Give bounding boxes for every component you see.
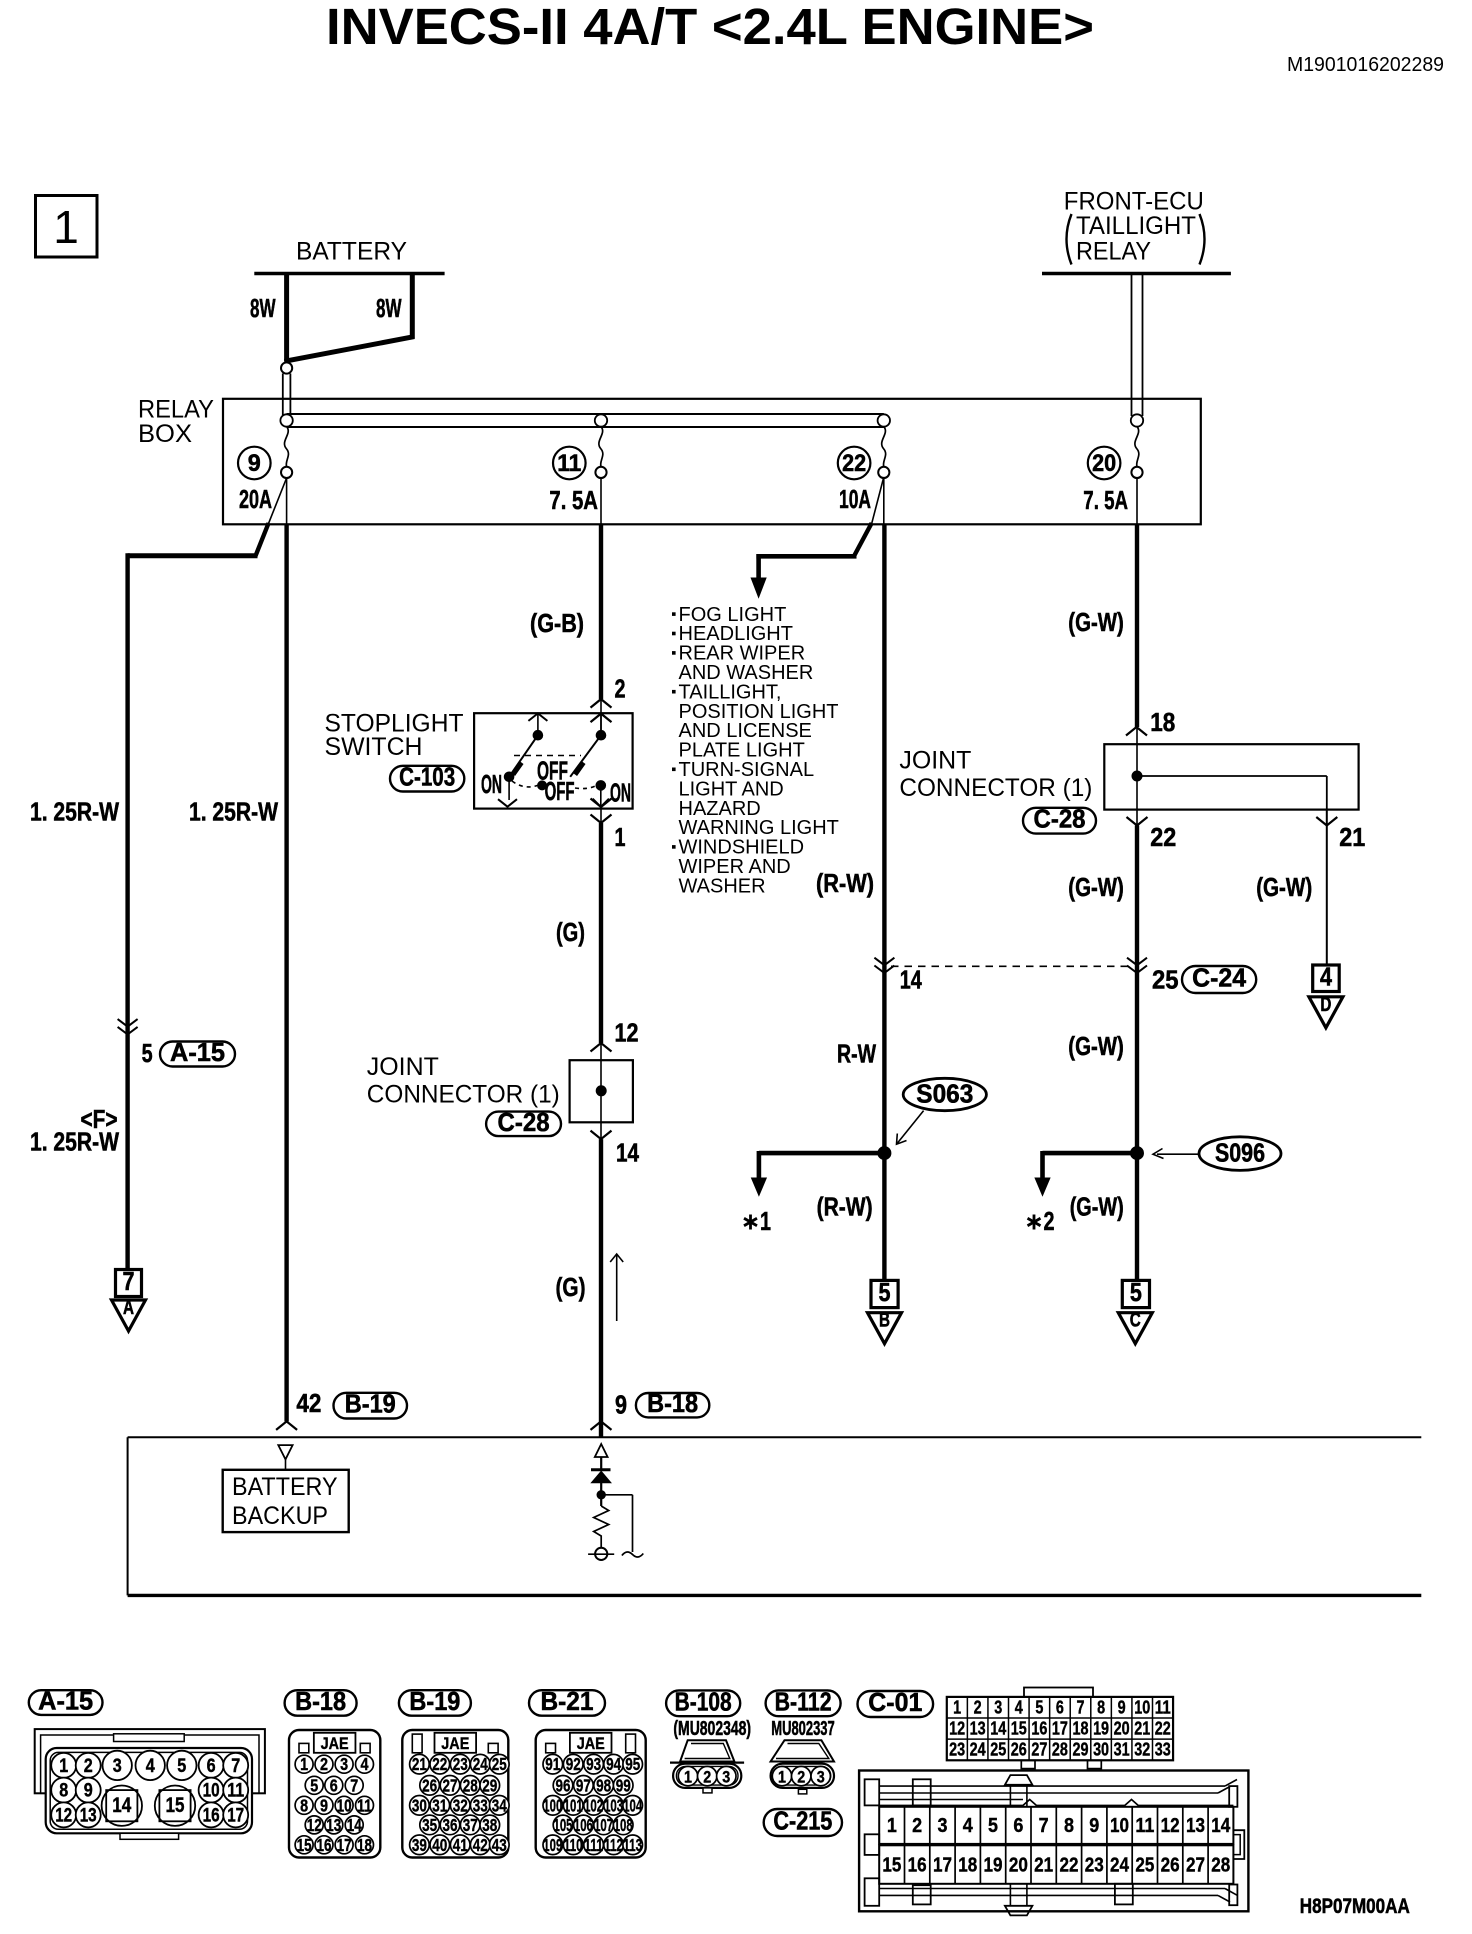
svg-text:(G): (G) [556,1272,586,1302]
svg-text:23: 23 [949,1740,965,1760]
svg-text:42: 42 [296,1388,321,1418]
svg-text:100: 100 [543,1795,562,1815]
svg-text:11: 11 [557,450,581,477]
svg-text:12: 12 [1161,1815,1180,1837]
svg-text:7. 5A: 7. 5A [1083,485,1128,515]
svg-text:95: 95 [625,1754,640,1774]
svg-text:7: 7 [1039,1815,1049,1837]
svg-text:4: 4 [1320,961,1332,991]
svg-text:23: 23 [453,1754,468,1774]
svg-text:R-W: R-W [837,1039,876,1069]
svg-text:5: 5 [1035,1697,1043,1717]
svg-text:10: 10 [203,1781,220,1802]
svg-text:20: 20 [1092,450,1116,477]
svg-text:20: 20 [1009,1855,1028,1877]
svg-text:4: 4 [146,1756,155,1777]
svg-text:11: 11 [357,1795,372,1815]
svg-text:21: 21 [1339,822,1365,852]
svg-text:4: 4 [1015,1697,1023,1717]
svg-text:M1901016202289: M1901016202289 [1287,54,1444,76]
svg-text:112: 112 [604,1835,623,1855]
svg-text:9: 9 [615,1390,627,1420]
svg-text:23: 23 [1085,1855,1104,1877]
svg-text:109: 109 [543,1835,562,1855]
svg-text:33: 33 [473,1795,488,1815]
svg-text:5: 5 [1130,1277,1142,1307]
svg-text:1: 1 [953,1697,961,1717]
svg-text:13: 13 [80,1805,97,1826]
svg-text:ON: ON [610,778,631,808]
svg-text:(G-B): (G-B) [530,608,584,638]
svg-text:92: 92 [566,1754,581,1774]
svg-text:96: 96 [556,1775,571,1795]
svg-text:17: 17 [1052,1719,1068,1739]
svg-text:16: 16 [908,1855,927,1877]
svg-text:RELAY: RELAY [1076,238,1151,266]
svg-text:9: 9 [248,450,261,477]
svg-text:14: 14 [900,965,922,995]
svg-text:43: 43 [492,1835,507,1855]
svg-text:H8P07M00AA: H8P07M00AA [1300,1895,1410,1918]
svg-text:25: 25 [1152,965,1179,995]
svg-text:12: 12 [307,1815,322,1835]
svg-text:1: 1 [760,1206,771,1236]
svg-text:91: 91 [545,1754,560,1774]
svg-text:5: 5 [142,1038,153,1068]
svg-text:B-19: B-19 [409,1686,460,1716]
svg-text:14: 14 [112,1794,131,1817]
svg-text:BATTERY: BATTERY [296,238,407,266]
svg-text:14: 14 [347,1815,362,1835]
svg-text:3: 3 [817,1767,825,1786]
svg-text:JAE: JAE [321,1734,349,1753]
svg-text:15: 15 [166,1794,185,1817]
svg-text:18: 18 [1150,707,1175,737]
svg-text:35: 35 [422,1815,437,1835]
svg-text:17: 17 [337,1835,352,1855]
svg-text:38: 38 [482,1815,497,1835]
svg-text:B-18: B-18 [647,1388,698,1418]
svg-text:105: 105 [554,1815,573,1835]
svg-text:107: 107 [594,1815,613,1835]
svg-text:2: 2 [703,1767,711,1786]
svg-text:2: 2 [797,1767,805,1786]
svg-text:97: 97 [576,1775,591,1795]
svg-text:20: 20 [1114,1719,1130,1739]
svg-text:8: 8 [1064,1815,1074,1837]
svg-text:25: 25 [990,1740,1006,1760]
svg-text:1: 1 [778,1767,786,1786]
svg-text:INVECS-II 4A/T <2.4L ENGINE>: INVECS-II 4A/T <2.4L ENGINE> [326,0,1094,55]
svg-text:9: 9 [1089,1815,1099,1837]
svg-text:24: 24 [473,1754,488,1774]
svg-text:27: 27 [1031,1740,1047,1760]
svg-text:22: 22 [1150,822,1176,852]
svg-text:JAE: JAE [577,1734,605,1753]
svg-text:34: 34 [492,1795,507,1815]
svg-text:5: 5 [988,1815,998,1837]
svg-text:WASHER: WASHER [679,875,766,897]
svg-text:110: 110 [564,1835,583,1855]
svg-text:B-18: B-18 [295,1686,346,1716]
svg-text:26: 26 [422,1775,437,1795]
svg-text:5: 5 [879,1277,891,1307]
svg-text:C-28: C-28 [1034,804,1086,834]
svg-text:7: 7 [1077,1697,1085,1717]
svg-text:15: 15 [882,1855,901,1877]
svg-text:7: 7 [350,1775,358,1795]
svg-text:14: 14 [1211,1815,1231,1837]
svg-text:102: 102 [584,1795,603,1815]
svg-text:1: 1 [53,201,79,253]
svg-text:19: 19 [1093,1719,1109,1739]
svg-text:19: 19 [984,1855,1003,1877]
svg-text:MU802337: MU802337 [771,1718,834,1740]
svg-text:1: 1 [300,1754,308,1774]
svg-text:22: 22 [432,1754,447,1774]
svg-text:(R-W): (R-W) [817,1192,873,1222]
svg-text:42: 42 [473,1835,488,1855]
svg-text:2: 2 [1044,1206,1055,1236]
svg-text:3: 3 [994,1697,1002,1717]
svg-text:B-21: B-21 [541,1686,594,1716]
svg-text:7. 5A: 7. 5A [549,485,598,515]
svg-text:(G-W): (G-W) [1256,872,1312,902]
svg-text:(G-W): (G-W) [1070,1192,1124,1222]
svg-text:B-19: B-19 [345,1389,396,1419]
svg-text:31: 31 [432,1795,447,1815]
svg-text:ON: ON [481,769,502,799]
svg-text:10: 10 [1110,1815,1129,1837]
svg-text:2: 2 [974,1697,982,1717]
svg-text:10: 10 [337,1795,352,1815]
svg-text:CONNECTOR (1): CONNECTOR (1) [899,774,1092,802]
svg-text:SWITCH: SWITCH [325,733,423,761]
svg-text:12: 12 [55,1805,72,1826]
svg-text:39: 39 [412,1835,427,1855]
svg-text:28: 28 [463,1775,478,1795]
svg-text:41: 41 [453,1835,468,1855]
svg-text:BATTERY: BATTERY [232,1473,338,1501]
svg-text:7: 7 [231,1756,240,1777]
svg-text:2: 2 [912,1815,922,1837]
svg-text:A-15: A-15 [38,1686,93,1716]
svg-text:JOINT: JOINT [899,747,971,775]
svg-text:3: 3 [722,1767,730,1786]
svg-text:2: 2 [615,674,626,704]
svg-text:C: C [1130,1310,1141,1332]
svg-text:(MU802348): (MU802348) [673,1718,751,1740]
svg-text:JAE: JAE [441,1734,469,1753]
svg-text:A: A [123,1297,134,1319]
svg-text:24: 24 [970,1740,986,1760]
svg-text:BACKUP: BACKUP [232,1502,328,1530]
svg-text:(G-W): (G-W) [1068,1031,1124,1061]
svg-text:D: D [1320,994,1331,1016]
svg-text:101: 101 [564,1795,583,1815]
svg-text:C-24: C-24 [1192,963,1247,993]
svg-text:8: 8 [300,1795,308,1815]
svg-text:26: 26 [1011,1740,1027,1760]
svg-text:BOX: BOX [138,420,192,448]
svg-text:3: 3 [340,1754,348,1774]
svg-text:6: 6 [330,1775,338,1795]
svg-text:13: 13 [326,1815,341,1835]
svg-text:5: 5 [310,1775,318,1795]
svg-text:16: 16 [1031,1719,1047,1739]
svg-text:18: 18 [1073,1719,1089,1739]
svg-text:36: 36 [443,1815,458,1835]
svg-text:1: 1 [59,1756,68,1777]
svg-text:22: 22 [842,450,866,477]
svg-text:11: 11 [1155,1697,1171,1717]
svg-text:22: 22 [1059,1855,1078,1877]
svg-text:1: 1 [615,822,626,852]
svg-text:9: 9 [320,1795,328,1815]
svg-text:24: 24 [1110,1855,1130,1877]
svg-text:32: 32 [1134,1740,1150,1760]
svg-text:18: 18 [357,1835,372,1855]
svg-text:5: 5 [177,1756,186,1777]
svg-text:7: 7 [123,1266,135,1296]
svg-text:12: 12 [615,1018,639,1048]
svg-text:2: 2 [84,1756,93,1777]
svg-text:103: 103 [604,1795,623,1815]
svg-text:13: 13 [970,1719,986,1739]
svg-text:CONNECTOR (1): CONNECTOR (1) [367,1081,560,1109]
svg-text:25: 25 [1135,1855,1154,1877]
svg-text:108: 108 [614,1815,633,1835]
svg-text:15: 15 [297,1835,312,1855]
svg-text:28: 28 [1052,1740,1068,1760]
svg-text:14: 14 [990,1719,1006,1739]
svg-text:6: 6 [1056,1697,1064,1717]
svg-text:10A: 10A [839,484,871,514]
svg-text:4: 4 [963,1815,974,1837]
svg-text:33: 33 [1155,1740,1171,1760]
svg-text:C-103: C-103 [399,762,455,792]
svg-text:16: 16 [203,1805,220,1826]
svg-text:2: 2 [320,1754,328,1774]
svg-text:8W: 8W [376,293,402,323]
svg-text:C-01: C-01 [868,1687,922,1717]
svg-text:12: 12 [949,1719,965,1739]
svg-text:17: 17 [227,1805,244,1826]
svg-text:94: 94 [606,1754,621,1774]
svg-text:113: 113 [623,1835,642,1855]
svg-text:S096: S096 [1215,1138,1265,1168]
svg-text:1. 25R-W: 1. 25R-W [189,797,278,827]
svg-text:98: 98 [596,1775,611,1795]
svg-text:B: B [879,1310,890,1332]
svg-text:31: 31 [1114,1740,1130,1760]
svg-text:99: 99 [616,1775,631,1795]
svg-text:6: 6 [207,1756,216,1777]
svg-text:TAILLIGHT: TAILLIGHT [1076,212,1196,240]
svg-text:111: 111 [584,1835,603,1855]
svg-text:6: 6 [1013,1815,1023,1837]
svg-text:21: 21 [1034,1855,1053,1877]
svg-text:OFF: OFF [537,756,568,786]
svg-text:1. 25R-W: 1. 25R-W [30,1127,119,1157]
svg-text:10: 10 [1134,1697,1150,1717]
svg-text:4: 4 [361,1754,369,1774]
svg-text:1. 25R-W: 1. 25R-W [30,797,119,827]
svg-text:32: 32 [453,1795,468,1815]
svg-text:C-215: C-215 [773,1806,832,1836]
svg-text:9: 9 [1118,1697,1126,1717]
svg-text:25: 25 [492,1754,507,1774]
svg-text:1: 1 [684,1767,692,1786]
svg-text:20A: 20A [239,484,272,514]
svg-text:27: 27 [443,1775,458,1795]
svg-text:17: 17 [933,1855,952,1877]
svg-text:29: 29 [1073,1740,1089,1760]
svg-text:21: 21 [1134,1719,1150,1739]
svg-text:93: 93 [586,1754,601,1774]
svg-text:18: 18 [958,1855,977,1877]
svg-text:13: 13 [1186,1815,1205,1837]
svg-text:30: 30 [1093,1740,1109,1760]
svg-text:8: 8 [59,1781,68,1802]
svg-text:15: 15 [1011,1719,1027,1739]
svg-text:40: 40 [432,1835,447,1855]
svg-text:A-15: A-15 [170,1037,225,1067]
svg-text:14: 14 [616,1138,639,1168]
svg-text:11: 11 [227,1781,244,1802]
svg-text:106: 106 [574,1815,593,1835]
svg-text:37: 37 [463,1815,478,1835]
svg-text:JOINT: JOINT [367,1053,439,1081]
svg-text:30: 30 [412,1795,427,1815]
svg-text:16: 16 [317,1835,332,1855]
svg-text:3: 3 [937,1815,947,1837]
svg-text:9: 9 [84,1781,93,1802]
svg-text:B-112: B-112 [775,1686,832,1716]
svg-text:S063: S063 [916,1079,973,1109]
svg-text:3: 3 [113,1756,122,1777]
svg-text:8: 8 [1097,1697,1105,1717]
svg-text:21: 21 [412,1754,427,1774]
svg-text:27: 27 [1186,1855,1205,1877]
svg-text:C-28: C-28 [498,1107,550,1137]
svg-text:28: 28 [1211,1855,1230,1877]
svg-text:(R-W): (R-W) [816,868,874,898]
svg-text:B-108: B-108 [675,1686,732,1716]
svg-text:1: 1 [887,1815,897,1837]
svg-text:(G-W): (G-W) [1068,607,1124,637]
svg-text:26: 26 [1161,1855,1180,1877]
svg-text:11: 11 [1135,1815,1154,1837]
svg-text:22: 22 [1155,1719,1171,1739]
svg-text:(G-W): (G-W) [1068,872,1124,902]
svg-text:104: 104 [623,1795,642,1815]
svg-text:8W: 8W [250,293,276,323]
svg-text:29: 29 [482,1775,497,1795]
svg-text:(G): (G) [556,917,585,947]
